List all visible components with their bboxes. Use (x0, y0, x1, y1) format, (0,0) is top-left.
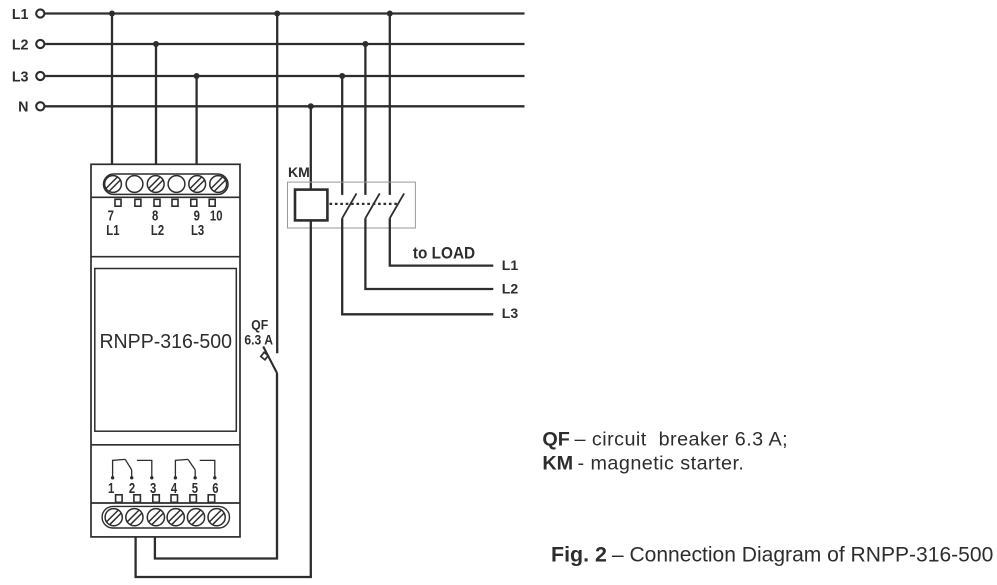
svg-text:L3: L3 (191, 222, 204, 239)
terminal 4 stub and arm (175, 459, 188, 477)
junction L1-QF (274, 11, 280, 17)
bottom terminal screw 1 (hatched) (105, 509, 122, 526)
svg-text:QF: QF (251, 317, 268, 333)
KM contact blade 3 (390, 193, 404, 218)
svg-text:KM: KM (542, 452, 573, 474)
KM contact blade 2 (365, 193, 379, 218)
top terminal strip (104, 174, 229, 194)
wire N to KM coil (310, 106, 312, 189)
device divider below top terminals (91, 196, 240, 198)
bottom terminal screw 6 (hatched) (208, 509, 225, 526)
svg-text:L1: L1 (106, 222, 119, 239)
circuit breaker QF (261, 347, 277, 374)
wire QF to terminal 3 (155, 373, 277, 559)
svg-text:L2: L2 (502, 281, 519, 297)
node N terminal circle (36, 102, 44, 110)
KM coil (295, 190, 327, 221)
svg-text:RNPP-316-500: RNPP-316-500 (99, 330, 232, 353)
wire L1 to QF (276, 14, 278, 354)
bottom terminal screw 4 (hatched) (167, 509, 184, 526)
top terminal screws (105, 176, 227, 193)
pin number 6 (212, 480, 218, 497)
wire port at terminal 3 (153, 495, 160, 503)
terminal 3 stub and arm (137, 460, 152, 477)
wire L3 to terminal 9 (195, 76, 197, 164)
svg-text:L1: L1 (502, 257, 519, 273)
svg-text:10: 10 (210, 207, 223, 224)
junction L3-KM (339, 73, 345, 79)
pin number 9 (194, 207, 200, 224)
wire KM contact 3 to load L1 (390, 218, 494, 265)
pin number 8 (152, 207, 158, 224)
wire port at terminal 10 (209, 199, 215, 206)
device divider below label area (91, 444, 240, 446)
svg-text:6.3 A: 6.3 A (244, 332, 273, 348)
svg-text:L2: L2 (151, 222, 164, 239)
wire port (172, 199, 178, 206)
svg-text:KM: KM (288, 164, 310, 180)
junction L2-term8 (153, 41, 159, 47)
terminal screw 7 (hatched) (105, 176, 122, 193)
pin number 7 (108, 207, 114, 224)
svg-text:- magnetic starter.: - magnetic starter. (578, 452, 745, 474)
KM contact blade 1 (342, 193, 356, 218)
terminal 3 dot (150, 476, 153, 479)
wire port at terminal 1 (116, 495, 123, 503)
QF label (251, 317, 268, 333)
pin number 3 (150, 480, 156, 497)
relay contact group 1 (terminals 1-2-3) (113, 459, 152, 477)
terminal 2 stub (131, 470, 133, 478)
wire L2 to terminal 8 (155, 44, 157, 164)
node L1 terminal circle (36, 9, 44, 17)
junction L1-term7 (109, 11, 115, 17)
terminal 5 dot (194, 476, 197, 479)
magnetic starter KM box (288, 182, 416, 228)
wire KM contact 1 to load L3 (342, 218, 493, 314)
junction N-KM coil (308, 103, 314, 109)
terminal screw 8 (hatched) (147, 176, 164, 193)
terminal 6 dot (213, 476, 216, 479)
wire port at terminal 2 (134, 495, 141, 503)
device divider above bottom terminals (91, 502, 240, 504)
wire L3 to KM contact 1 (341, 76, 343, 195)
wire port at terminal 5 (190, 495, 197, 503)
wire port at terminal 4 (171, 495, 178, 503)
svg-text:L3: L3 (12, 69, 29, 85)
KM linkage dotted line (330, 203, 399, 205)
svg-text:1: 1 (108, 480, 114, 497)
QF value 6.3 A (244, 332, 273, 348)
svg-text:5: 5 (192, 480, 198, 497)
svg-text:N: N (18, 100, 28, 116)
terminal screw 10 (hatched) (210, 176, 227, 193)
wire L1 rail (45, 12, 525, 14)
svg-text:2: 2 (129, 480, 135, 497)
device label box (95, 269, 237, 432)
pin number 1 (108, 480, 114, 497)
terminal 2 dot (130, 476, 133, 479)
device divider above label area (91, 256, 240, 258)
label to LOAD (413, 245, 475, 263)
relay contact group 2 (terminals 4-5-6) (175, 459, 214, 477)
terminal 6 stub and arm (200, 460, 215, 477)
pin number 2 (129, 480, 135, 497)
terminal 1 dot (111, 476, 114, 479)
relay blade 2 (188, 459, 195, 470)
wire port at terminal 7 (115, 199, 121, 206)
svg-text:– Connection Diagram of RNPP-3: – Connection Diagram of RNPP-316-500 (612, 544, 993, 567)
pin number 10 (210, 207, 223, 224)
terminal screw 9 (hatched) (189, 176, 206, 193)
wire port at terminal 6 (208, 495, 215, 503)
bottom terminal screw 2 (hatched) (126, 509, 143, 526)
svg-text:L1: L1 (12, 7, 29, 23)
svg-text:L2: L2 (12, 37, 29, 53)
QF tilted square tip (261, 352, 268, 359)
wire N rail (45, 105, 525, 107)
wire L3 rail (45, 75, 525, 77)
wire L1 to KM contact 3 (389, 14, 391, 195)
wire KM contact 2 to load L2 (365, 218, 493, 289)
relay blade 1 (125, 459, 132, 470)
pin label L3 (191, 222, 204, 239)
terminal 4 dot (174, 476, 177, 479)
bottom terminal screw 3 (hatched) (147, 509, 164, 526)
terminal stub dots (111, 476, 217, 479)
pin label L2 (151, 222, 164, 239)
junction L3-term9 (194, 73, 200, 79)
wire L1 to terminal 7 (111, 14, 113, 165)
svg-text:– circuit breaker 6.3 A;: – circuit breaker 6.3 A; (575, 428, 789, 450)
bottom terminal screws (all hatched) (105, 509, 225, 526)
junction L1-KM (387, 11, 393, 17)
svg-text:6: 6 (212, 480, 218, 497)
bottom terminal strip (102, 506, 229, 528)
terminal screw (plain) (126, 176, 143, 193)
pin label L1 (106, 222, 119, 239)
node L3 terminal circle (36, 72, 44, 80)
svg-text:3: 3 (150, 480, 156, 497)
svg-text:4: 4 (171, 480, 178, 497)
terminal 5 stub (194, 470, 196, 478)
wire port at terminal 8 (154, 199, 160, 206)
svg-text:to LOAD: to LOAD (413, 245, 475, 263)
terminal 1 stub and arm (113, 459, 126, 477)
terminal screw (plain) (168, 176, 185, 193)
pin number 4 (171, 480, 178, 497)
wire port at terminal 9 (191, 199, 197, 206)
svg-text:Fig. 2: Fig. 2 (551, 543, 607, 567)
junction L2-KM (362, 41, 368, 47)
device RNPP-316-500 outline (91, 164, 240, 537)
wire L2 to KM contact 2 (364, 44, 366, 195)
pin number 5 (192, 480, 198, 497)
wire KM coil to terminal 2 (136, 220, 311, 577)
QF blade (263, 347, 277, 374)
bottom terminal screw 5 (hatched) (187, 509, 204, 526)
wire port (135, 199, 141, 206)
svg-text:QF: QF (542, 428, 569, 450)
svg-text:L3: L3 (502, 305, 519, 321)
node L2 terminal circle (36, 40, 44, 48)
wire L2 rail (45, 43, 525, 45)
